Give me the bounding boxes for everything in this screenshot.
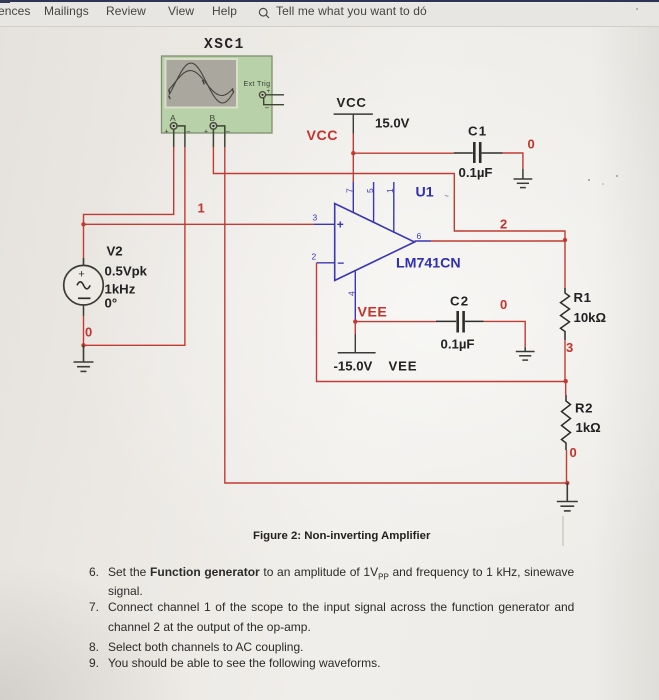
search icon [257,6,271,20]
resistor R2 [562,395,571,450]
wire: VCC rail to junction [352,134,354,154]
channel A terminal [165,113,192,137]
wire: R1 bottom to net 3 junction [564,340,566,381]
pin 3 stub [314,223,335,225]
wire: scope B+ to output node [213,147,565,240]
ground (C2) [516,348,535,361]
wire: C1 to ground [503,153,523,169]
op-amp U1 triangle [335,204,415,281]
oscilloscope XSC1 body [162,56,273,133]
node: net 3 junction [564,379,568,383]
wire: net 2 down to R1 [564,240,566,288]
pin 6 stub (output) [415,240,432,242]
wire: VEE junction to C2 [355,321,436,323]
Ext Trig minus stub wire [264,98,284,105]
pin 5 stub [373,182,375,223]
node: V2 ground junction [81,343,85,347]
wire: scope A- down and to V2 bottom [84,147,185,345]
ground (R2 / bottom rail) [557,483,578,511]
node: VCC junction [351,151,355,155]
pin 4 stub [354,272,356,322]
wire: op-amp output to net 2 node [431,240,565,242]
wire: VEE junction down to rail stub [354,322,356,334]
pin 2 stub [317,262,335,264]
wire: feedback from pin 2 down and right to net 3 [317,263,566,382]
Ext Trig plus stub wire [266,94,284,96]
top navy strip [0,0,659,2]
wire: R2 bottom to ground junction [566,450,568,483]
ground (C1) [514,169,533,188]
node: net 1 junction [81,222,85,226]
ground (V2) [74,345,94,371]
resistor R1 [561,288,570,340]
wire: C2 to ground [484,321,526,347]
wire: scope B- down to bottom ground rail [225,147,568,483]
channel A terminal stubs [174,126,185,147]
wire: VCC junction to C1 [353,152,453,154]
VEE net: node at pin 4 [353,319,357,323]
capacitor C2 [436,311,484,333]
wire: net 3 to R2 top [565,381,567,395]
scope waveform trace 1 [169,63,233,103]
capacitor C1 [454,142,503,163]
figure caption [253,530,453,542]
wire: V2 bottom to ground junction [83,316,85,346]
wire: VCC junction down to op-amp pin 7 [352,153,354,182]
scope waveform trace 2 [169,71,233,96]
Ext Trig terminal [259,88,270,113]
source V2 [64,265,104,305]
channel B terminal stubs [213,126,224,147]
pin 1 stub [393,182,395,233]
VEE rail symbol [338,334,376,353]
photo artifacts: faint specks [588,179,590,181]
wire: scope A+ to net 1 / V2 top [84,147,174,265]
trace start arrows [169,80,234,99]
V2 lead stubs [83,258,85,316]
VCC rail symbol [334,95,373,134]
ribbon tab bar [0,3,659,27]
node: bottom ground junction [565,481,569,485]
channel B terminal [204,113,231,137]
pin 7 stub [352,182,354,213]
node: net 2 junction [563,238,567,242]
wire: net 1 horizontal to op-amp pin 3 [84,223,315,225]
